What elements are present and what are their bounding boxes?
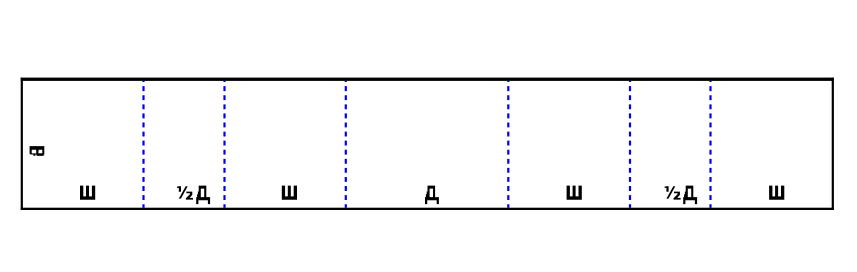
- label Ш section 1: [80, 186, 95, 200]
- fold line 3: [345, 81, 347, 208]
- fold line 1: [142, 81, 144, 208]
- fold line 2: [223, 81, 225, 208]
- outline rectangle: top border: [21, 78, 834, 81]
- label Д section 4: [425, 186, 439, 205]
- outline rectangle: right border: [832, 78, 834, 210]
- label Ш section 7: [769, 186, 784, 200]
- label Ш section 5: [567, 186, 582, 200]
- label ½ Д section 2: [177, 186, 210, 205]
- fold line 6: [709, 81, 711, 208]
- outline rectangle: bottom border: [21, 208, 834, 210]
- label В (height), rotated: [30, 146, 45, 156]
- fold line 5: [629, 81, 631, 208]
- outline rectangle: left border: [21, 78, 23, 210]
- fold line 4: [507, 81, 509, 208]
- label Ш section 3: [282, 186, 297, 200]
- label ½ Д section 6: [665, 186, 698, 205]
